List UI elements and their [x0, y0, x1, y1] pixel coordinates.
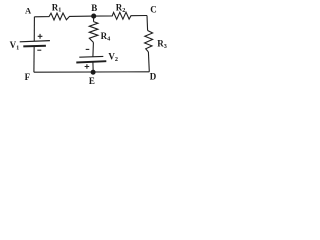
svg-text:R2: R2	[116, 3, 126, 14]
svg-text:E: E	[89, 76, 95, 86]
svg-text:B: B	[91, 3, 97, 13]
svg-text:V1: V1	[10, 40, 20, 51]
svg-text:R4: R4	[101, 31, 111, 42]
svg-text:R3: R3	[157, 38, 167, 49]
svg-text:V2: V2	[108, 52, 118, 63]
svg-text:F: F	[25, 72, 31, 82]
svg-text:A: A	[25, 6, 32, 16]
svg-text:D: D	[150, 71, 157, 81]
svg-text:C: C	[150, 5, 157, 15]
svg-text:R1: R1	[52, 2, 62, 13]
